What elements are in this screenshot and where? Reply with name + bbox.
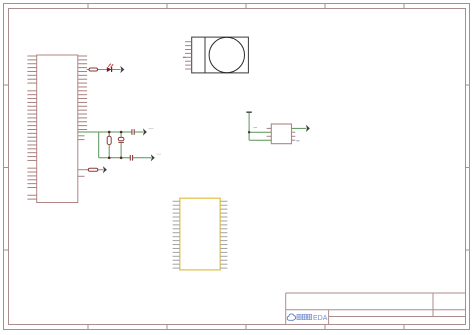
junction node top-left	[108, 131, 111, 134]
U1 left pins	[27, 56, 36, 199]
junction node top-right	[120, 131, 123, 134]
capacitor C3 yellow IC body (highlighted symbol)	[180, 198, 220, 270]
netflag arrow bottom row	[151, 154, 155, 161]
wire U1 pin to R3 (gray)	[87, 169, 104, 171]
frame zone ticks bottom	[88, 325, 404, 330]
op-amp U1 body (large MCU symbol)	[37, 55, 78, 203]
buzzer B1 pins	[185, 42, 192, 69]
svg-text:EDA: EDA	[313, 315, 328, 322]
U1 right pins	[78, 56, 87, 176]
LED D1	[107, 67, 112, 72]
wire to U2 pin 2	[249, 131, 271, 133]
U2 left pins	[267, 128, 272, 136]
wire from U1 pin to R1 and D1 (gray)	[87, 69, 121, 71]
capacitor C4 (series, bottom row)	[130, 155, 132, 161]
net label right of U2 (blue)	[296, 140, 299, 142]
wire bottom row	[99, 157, 130, 159]
resistor R2 (vertical)	[107, 132, 111, 158]
netflag arrow U2 output	[306, 125, 310, 132]
wire cap C4 to arrow	[133, 157, 151, 159]
junction node bottom-right	[120, 157, 123, 160]
netflag arrow top row	[143, 128, 147, 135]
yellow IC left pins	[173, 201, 180, 268]
title block	[286, 293, 466, 325]
power flag VCC	[246, 111, 251, 113]
capacitor C2 (series, top row)	[132, 129, 134, 135]
U2 right pins	[292, 132, 296, 140]
transistor U2 body (small IC)	[271, 124, 291, 144]
net label left of U2	[254, 127, 258, 129]
wire U2 output	[292, 127, 307, 129]
faint net label bottom row	[157, 153, 162, 155]
yellow IC right pins	[220, 201, 227, 268]
JLCEDA logo text 嘉立创EDA	[297, 314, 328, 322]
frame zone ticks left	[4, 85, 9, 250]
faint net label top row	[149, 128, 154, 130]
netflag arrow R3 row	[103, 166, 107, 173]
junction node bottom-left	[108, 157, 111, 160]
resistor R3	[88, 168, 98, 171]
wire U1 pin to node A (green, top)	[78, 131, 132, 133]
netflag arrow on LED row	[120, 66, 124, 73]
LED D1 emission arrows	[108, 63, 113, 67]
frame zone ticks right	[466, 85, 470, 250]
resistor R1	[89, 68, 98, 71]
wire VCC vertical	[248, 113, 250, 140]
buzzer B1 body	[192, 37, 249, 73]
wire vertical branch	[98, 132, 100, 158]
frame zone ticks top	[88, 4, 404, 9]
wire cap C2 to arrow	[135, 131, 144, 133]
junction VCC node	[248, 131, 250, 133]
wire stub at buzzer pin 5	[183, 56, 185, 58]
capacitor C1 (polarized, vertical)	[118, 132, 124, 158]
JLCEDA logo cloud icon	[287, 314, 295, 320]
wire to U2 pin 4	[249, 139, 271, 141]
